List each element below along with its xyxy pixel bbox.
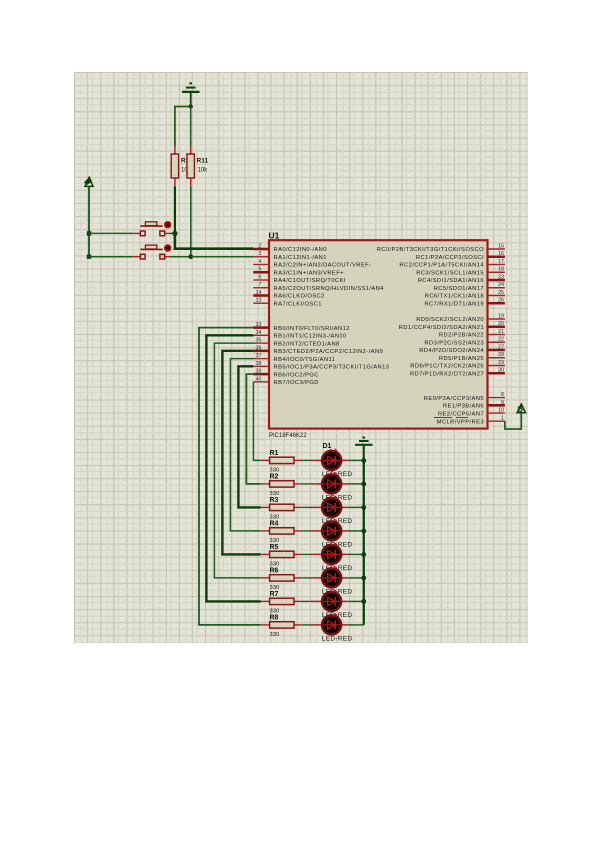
pin 36 RB3 <box>253 345 383 355</box>
junction bus row 5 <box>361 552 366 557</box>
wire RB2 net to R6 <box>214 343 260 578</box>
pin 23 RC4 <box>418 274 505 284</box>
wire RB0 net to R8 <box>199 328 261 625</box>
pin 6 RA4 <box>253 274 346 284</box>
wire power rail <box>88 186 90 256</box>
junction bus row 7 <box>361 599 366 604</box>
resistor R8 <box>261 615 302 638</box>
svg-text:R1: R1 <box>270 450 279 457</box>
svg-text:RD7/P1D/RX2/DT2/AN27: RD7/P1D/RX2/DT2/AN27 <box>410 371 484 377</box>
svg-text:23: 23 <box>498 274 504 280</box>
svg-text:R4: R4 <box>270 521 279 528</box>
wire R10 to button1 junction <box>174 186 176 233</box>
junction bus row 3 <box>361 505 366 510</box>
power terminal +V left <box>84 176 93 186</box>
pin 2 RA0 <box>253 243 327 253</box>
svg-text:37: 37 <box>256 353 262 359</box>
wire gnd junction to R11 <box>190 107 192 147</box>
svg-text:24: 24 <box>498 282 504 288</box>
IC U1 PIC18F46K22 <box>269 231 488 440</box>
wire pin1 to power terminal <box>505 414 521 429</box>
wire RB5 net to R3 <box>238 366 260 507</box>
svg-text:5: 5 <box>259 267 262 273</box>
wire rail to button1 <box>89 232 132 234</box>
pin 8 RE0 <box>424 392 505 402</box>
svg-text:2: 2 <box>259 243 262 249</box>
LED D3 <box>311 496 353 525</box>
svg-text:8: 8 <box>501 392 504 398</box>
pin 17 RC2 <box>399 259 504 269</box>
svg-text:14: 14 <box>256 290 262 296</box>
svg-text:29: 29 <box>498 360 504 366</box>
svg-text:RC3/SCK1/SCL1/AN15: RC3/SCK1/SCL1/AN15 <box>416 270 484 276</box>
pin 3 RA1 <box>253 251 327 261</box>
wire R8 to D8 <box>302 624 310 626</box>
svg-text:RC0/P2B/T3CKI/T3G/T1CKI/SOSCO: RC0/P2B/T3CKI/T3G/T1CKI/SOSCO <box>377 247 484 253</box>
svg-text:27: 27 <box>498 344 504 350</box>
wire gnd junction to R10 <box>175 107 191 147</box>
svg-text:RC2/CCP1/P1A/T5CKI/AN14: RC2/CCP1/P1A/T5CKI/AN14 <box>399 263 484 269</box>
LED D7 <box>311 590 353 619</box>
svg-text:RB5/IOC1/P3A/CCP3/T3CKI/T1G/AN: RB5/IOC1/P3A/CCP3/T3CKI/T1G/AN13 <box>274 365 390 371</box>
pin 34 RB1 <box>253 330 346 340</box>
svg-text:RB4/IOC0/T5G/AN11: RB4/IOC0/T5G/AN11 <box>274 357 336 363</box>
wire D2 to bus <box>349 483 364 485</box>
svg-text:PIC18F46K22: PIC18F46K22 <box>269 433 307 439</box>
wire R6 to D6 <box>302 577 310 579</box>
wire R11 to button2 junction <box>190 186 192 256</box>
push button SW2 <box>132 245 171 259</box>
svg-text:RD4/P2D/SDO2/AN24: RD4/P2D/SDO2/AN24 <box>419 348 484 354</box>
svg-text:RC4/SDI1/SDA1/AN16: RC4/SDI1/SDA1/AN16 <box>418 278 484 284</box>
svg-text:R8: R8 <box>270 615 279 622</box>
wire D1 to bus <box>349 459 364 461</box>
svg-text:330: 330 <box>270 632 280 638</box>
svg-text:22: 22 <box>498 337 504 343</box>
svg-text:17: 17 <box>498 259 504 265</box>
wire R7 to D7 <box>302 600 310 602</box>
pin 5 RA3 <box>253 267 344 277</box>
wire R5 to D5 <box>302 553 310 555</box>
schematic sheet <box>74 72 528 643</box>
pin 25 RC6 <box>425 290 505 300</box>
LED D2 <box>311 472 353 501</box>
pin 21 RD2 <box>439 329 505 339</box>
svg-text:R3: R3 <box>270 497 279 504</box>
ground GND top <box>182 83 200 106</box>
pin 35 RB2 <box>253 338 339 348</box>
svg-text:RC7/RX1/DT1/AN19: RC7/RX1/DT1/AN19 <box>424 301 484 307</box>
junction bus row 2 <box>361 482 366 487</box>
svg-text:28: 28 <box>498 352 504 358</box>
junction button1 node <box>172 231 177 236</box>
svg-text:30: 30 <box>498 368 504 374</box>
pin 4 RA2 <box>253 259 371 269</box>
pin 37 RB4 <box>253 353 335 363</box>
pin 18 RC3 <box>416 267 505 277</box>
pin 19 RD0 <box>416 313 505 323</box>
push button SW1 <box>132 221 171 235</box>
svg-text:10: 10 <box>498 408 504 414</box>
junction bus row 4 <box>361 529 366 534</box>
junction button2 node <box>188 254 193 259</box>
svg-text:21: 21 <box>498 329 504 335</box>
svg-text:RA7/CLKI/OSC1: RA7/CLKI/OSC1 <box>274 301 322 307</box>
svg-text:RA5/C2OUT/SRNQ/HLVDIN/SS1/AN4: RA5/C2OUT/SRNQ/HLVDIN/SS1/AN4 <box>274 286 385 292</box>
svg-text:R5: R5 <box>270 544 279 551</box>
resistor R11 <box>187 146 208 186</box>
wire R1 to D1 <box>302 459 310 461</box>
svg-text:RC6/TX1/CK1/AN18: RC6/TX1/CK1/AN18 <box>425 294 484 300</box>
wire RB4 net to R4 <box>230 359 260 531</box>
svg-text:R2: R2 <box>270 474 279 481</box>
wire D4 to bus <box>349 530 364 532</box>
svg-text:15: 15 <box>498 243 504 249</box>
wire net RA0 to pin 2 <box>175 233 254 248</box>
pin 30 RD7 <box>410 368 505 378</box>
resistor R3 <box>261 497 302 520</box>
pin 24 RC5 <box>434 282 505 292</box>
svg-text:RD3/P2C/SS2/AN23: RD3/P2C/SS2/AN23 <box>424 340 484 346</box>
wire button1 to junction <box>170 232 175 234</box>
svg-text:R11: R11 <box>197 158 209 165</box>
pin 22 RD3 <box>424 337 504 347</box>
ground GND right <box>355 438 372 461</box>
svg-text:RB2/INT2/CTED1/AN8: RB2/INT2/CTED1/AN8 <box>274 341 340 347</box>
svg-text:26: 26 <box>498 298 504 304</box>
wire R3 to D3 <box>302 506 310 508</box>
wire D3 to bus <box>349 506 364 508</box>
wire button2 to junction <box>170 256 191 258</box>
resistor R7 <box>261 591 302 614</box>
svg-text:20: 20 <box>498 321 504 327</box>
svg-text:4: 4 <box>259 259 262 265</box>
pin 40 RB7 <box>253 376 319 386</box>
wire R4 to D4 <box>302 530 310 532</box>
svg-text:39: 39 <box>256 369 262 375</box>
pin 20 RD1 <box>399 321 505 331</box>
wire rail to button2 <box>89 256 132 258</box>
svg-text:10k: 10k <box>198 168 209 174</box>
svg-text:330: 330 <box>270 608 280 614</box>
pin 10 RE2 <box>438 408 505 418</box>
wire LED cathode bus <box>363 460 365 625</box>
svg-text:RA2/C2IN+/AN2/DACOUT/VREF-: RA2/C2IN+/AN2/DACOUT/VREF- <box>274 263 372 269</box>
pin 13 RA7 <box>253 298 322 308</box>
wire RB1 net to R7 <box>206 335 260 601</box>
junction bus row 1 <box>361 458 366 463</box>
pin 14 RA6 <box>253 290 324 300</box>
wire RB7 net to R1 <box>253 382 260 461</box>
wire RB6 net to R2 <box>246 374 260 484</box>
svg-text:25: 25 <box>498 290 504 296</box>
resistor R10 <box>171 146 193 186</box>
resistor R4 <box>261 521 302 544</box>
svg-text:RC5/SDO1/AN17: RC5/SDO1/AN17 <box>434 286 484 292</box>
pin 9 RE1 <box>443 400 505 410</box>
svg-text:RA0/C12IN0-/AN0: RA0/C12IN0-/AN0 <box>274 247 327 253</box>
wire D6 to bus <box>349 577 364 579</box>
svg-text:RA1/C12IN1-/AN1: RA1/C12IN1-/AN1 <box>274 255 327 261</box>
svg-text:RA4/C1OUT/SRQ/T0CKI: RA4/C1OUT/SRQ/T0CKI <box>274 278 346 284</box>
svg-text:7: 7 <box>259 282 262 288</box>
junction rail-button2 <box>87 255 91 259</box>
resistor R6 <box>261 568 302 591</box>
LED D6 <box>311 566 353 595</box>
wire net RA1 to pin 3 <box>191 256 254 258</box>
LED D5 <box>311 543 353 572</box>
junction gnd node <box>189 104 193 108</box>
svg-text:330: 330 <box>270 561 280 567</box>
svg-text:9: 9 <box>501 400 504 406</box>
svg-text:330: 330 <box>270 491 280 497</box>
pin 28 RD5 <box>439 352 505 362</box>
junction rail-button1 <box>87 231 91 235</box>
svg-text:R7: R7 <box>270 591 279 598</box>
svg-text:35: 35 <box>256 338 262 344</box>
svg-text:RD6/P1C/TX2/CK2/AN26: RD6/P1C/TX2/CK2/AN26 <box>410 364 484 370</box>
svg-text:RD2/P2B/AN22: RD2/P2B/AN22 <box>439 333 484 339</box>
svg-text:RE1/P3B/AN6: RE1/P3B/AN6 <box>443 404 484 410</box>
svg-text:RB7/IOC3/PGD: RB7/IOC3/PGD <box>274 380 319 386</box>
svg-text:RE0/P3A/CCP3/AN5: RE0/P3A/CCP3/AN5 <box>424 396 484 402</box>
svg-text:330: 330 <box>270 467 280 473</box>
svg-text:34: 34 <box>256 330 262 336</box>
svg-text:MCLR/VPP/RE3: MCLR/VPP/RE3 <box>437 419 484 425</box>
pin 38 RB5 <box>253 361 389 371</box>
svg-text:RB0/INT0/FLT0/SRI/AN12: RB0/INT0/FLT0/SRI/AN12 <box>274 326 350 332</box>
svg-text:RA3/C1IN+/AN3/VREF+: RA3/C1IN+/AN3/VREF+ <box>274 270 345 276</box>
svg-text:RA6/CLKO/OSC2: RA6/CLKO/OSC2 <box>274 294 325 300</box>
pin 15 RC0 <box>377 243 505 253</box>
svg-text:1: 1 <box>501 416 504 422</box>
pin 1 MCLR/VPP/RE3 <box>434 416 505 426</box>
pin 16 RC1 <box>416 251 505 261</box>
svg-text:RB3/CTED2/P2A/CCP2/C12IN2-/AN9: RB3/CTED2/P2A/CCP2/C12IN2-/AN9 <box>274 349 384 355</box>
pin 26 RC7 <box>424 298 504 308</box>
svg-text:RD0/SCK2/SCL2/AN20: RD0/SCK2/SCL2/AN20 <box>416 317 484 323</box>
wire R2 to D2 <box>302 483 310 485</box>
wire D5 to bus <box>349 553 364 555</box>
svg-text:3: 3 <box>259 251 262 257</box>
svg-text:RD1/CCP4/SDI2/SDA2/AN21: RD1/CCP4/SDI2/SDA2/AN21 <box>399 325 484 331</box>
pin 27 RD4 <box>419 344 505 354</box>
svg-text:RC1/P2A/CCP2/SOSCI: RC1/P2A/CCP2/SOSCI <box>416 255 484 261</box>
svg-text:18: 18 <box>498 267 504 273</box>
svg-text:RD5/P1B/AN25: RD5/P1B/AN25 <box>439 356 484 362</box>
wire D8 to bus <box>349 624 364 626</box>
resistor R5 <box>261 544 302 567</box>
pin 7 RA5 <box>253 282 384 292</box>
wire RB3 net to R5 <box>222 351 260 555</box>
svg-text:R6: R6 <box>270 568 279 575</box>
svg-text:330: 330 <box>270 514 280 520</box>
LED D4 <box>311 519 353 548</box>
svg-text:33: 33 <box>256 322 262 328</box>
resistor R2 <box>261 474 302 497</box>
wire D7 to bus <box>349 600 364 602</box>
svg-text:330: 330 <box>270 585 280 591</box>
svg-text:36: 36 <box>256 345 262 351</box>
svg-text:330: 330 <box>270 538 280 544</box>
svg-text:38: 38 <box>256 361 262 367</box>
svg-text:40: 40 <box>256 376 262 382</box>
svg-text:LED-RED: LED-RED <box>322 636 353 643</box>
svg-text:16: 16 <box>498 251 504 257</box>
svg-text:U1: U1 <box>269 231 280 241</box>
LED D8 <box>311 613 353 642</box>
svg-text:13: 13 <box>256 298 262 304</box>
pin 33 RB0 <box>253 322 350 332</box>
pin 39 RB6 <box>253 369 319 379</box>
pin 29 RD6 <box>410 360 505 370</box>
svg-text:RB6/IOC2/PGC: RB6/IOC2/PGC <box>274 372 319 378</box>
junction bus row 6 <box>361 576 366 581</box>
LED D1 <box>311 443 353 478</box>
svg-text:6: 6 <box>259 274 262 280</box>
power terminal +V right <box>517 403 526 413</box>
svg-text:RB1/INT1/C12IN3-/AN10: RB1/INT1/C12IN3-/AN10 <box>274 334 347 340</box>
svg-text:RE2/CCP5/AN7: RE2/CCP5/AN7 <box>438 411 484 417</box>
svg-text:19: 19 <box>498 313 504 319</box>
resistor R1 <box>261 450 302 473</box>
